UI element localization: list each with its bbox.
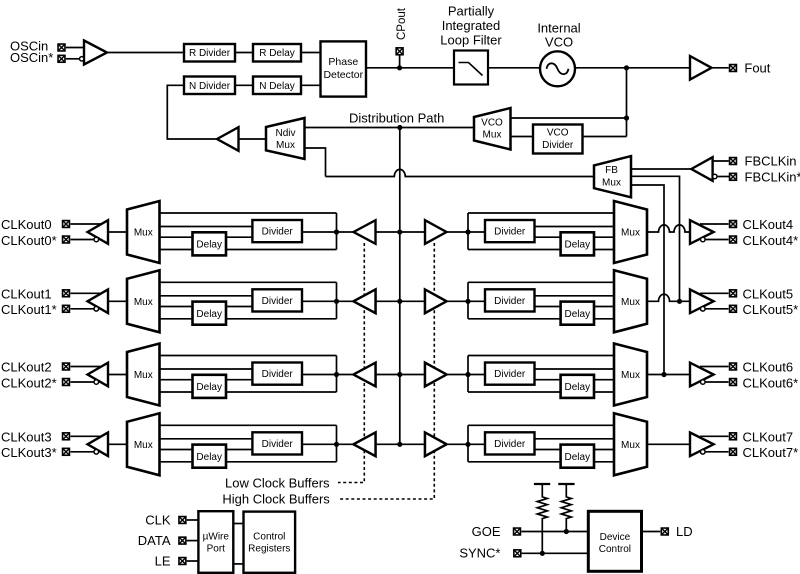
pin CLKout1* xyxy=(63,305,70,312)
svg-text:CLKout5*: CLKout5* xyxy=(743,302,799,317)
wire R Delay to Phase Detector xyxy=(301,52,321,54)
svg-text:N Divider: N Divider xyxy=(189,81,231,92)
block N Divider xyxy=(184,77,235,95)
wire high buffer 7 to CLKout7 channel xyxy=(447,443,486,445)
wire N Divider to N Delay xyxy=(235,84,253,86)
block Phase Detector xyxy=(321,41,367,96)
svg-text:CLKout1*: CLKout1* xyxy=(1,302,57,317)
svg-text:Detector: Detector xyxy=(323,69,363,81)
wire FBCLKin* pin to buffer xyxy=(717,176,730,178)
node CLKout0 label xyxy=(1,217,52,232)
wire OSCin buffer to R Divider xyxy=(107,52,184,54)
op-amp CLKout4 output buffer xyxy=(690,220,714,244)
pin CPout xyxy=(396,48,403,55)
pin CLKout3 xyxy=(63,433,70,440)
pin CLKout0* xyxy=(63,236,70,243)
wire VCO Divider input xyxy=(583,136,627,138)
svg-text:Mux: Mux xyxy=(276,140,295,151)
node CLKout2 label xyxy=(1,360,52,375)
block R Delay xyxy=(253,44,301,62)
op-amp CLKout6 output buffer xyxy=(690,363,714,387)
wire distribution path to high buffer 7 xyxy=(400,443,425,445)
mux CLKout5 Mux xyxy=(614,270,647,332)
wire CLKout1 buffer to pin xyxy=(71,292,105,294)
pin DATA xyxy=(179,537,186,544)
op-amp CLKout1 output buffer xyxy=(88,290,109,314)
power rail pullup 2 xyxy=(558,483,574,485)
junction GOE pullup xyxy=(564,529,569,534)
wire CLKout1* buffer to pin xyxy=(71,308,95,310)
wire CLKout2* buffer to pin xyxy=(71,381,95,383)
svg-text:Divider: Divider xyxy=(262,227,294,238)
block Delay CLKout2 xyxy=(193,375,227,398)
wire CLKout2 buffer to pin xyxy=(71,366,105,368)
op-amp high clock buffer 5 overlay xyxy=(425,290,447,314)
junction VCO output xyxy=(624,65,629,70)
mux Ndiv Mux xyxy=(266,118,305,159)
junction CLKout5 channel node xyxy=(465,299,470,304)
svg-text:Internal: Internal xyxy=(537,21,580,36)
wire dashed callout low clock buffers xyxy=(338,243,364,483)
wire GOE to Device Control xyxy=(521,531,588,533)
op-amp Fout buffer xyxy=(690,56,712,80)
wire CLKout5 channel routing xyxy=(468,282,614,319)
wire N feedback buffer to N Divider xyxy=(167,85,217,139)
wire VCO Mux output to Ndiv Mux xyxy=(305,127,475,129)
wire Ndiv Mux input 2 routing xyxy=(305,148,326,177)
junction CLKout4 channel node xyxy=(465,229,470,234)
junction VCO Mux input xyxy=(624,115,629,120)
wire VCO to Fout buffer xyxy=(575,67,690,69)
node CLKout4* label xyxy=(743,233,799,248)
wire LE pin to uWire Port xyxy=(187,560,199,562)
block Divider CLKout2 xyxy=(252,363,302,385)
block Delay CLKout3 xyxy=(193,445,227,468)
block Delay CLKout0 xyxy=(193,232,227,255)
pin SYNC* xyxy=(514,550,521,557)
node OSCin* label xyxy=(10,50,53,65)
pin LD xyxy=(661,528,668,535)
wire CLKout4 Mux to output buffer xyxy=(647,225,690,232)
op-amp CLKout0 output buffer xyxy=(88,220,109,244)
node High Clock Buffers label xyxy=(222,492,330,507)
mux CLKout4 Mux xyxy=(614,201,647,263)
block Control Registers xyxy=(244,512,296,573)
junction distribution path top xyxy=(397,125,402,130)
svg-text:SYNC*: SYNC* xyxy=(459,545,500,560)
pin CLKout7* xyxy=(730,448,737,455)
pin CLKout4 xyxy=(730,221,737,228)
node FBCLKin label xyxy=(745,154,797,169)
wire CLKout1 channel routing xyxy=(160,282,354,319)
wire SYNC* to Device Control xyxy=(522,552,589,554)
pin CLKout2 xyxy=(63,363,70,370)
node CLKout6* label xyxy=(743,375,799,390)
svg-text:CLKout0: CLKout0 xyxy=(1,217,52,232)
wire CPout stub xyxy=(399,56,401,68)
wire high buffer 6 to CLKout6 channel xyxy=(447,374,486,376)
wire CLKout7* buffer to pin xyxy=(705,451,729,453)
node FBCLKin* label xyxy=(745,169,800,184)
mux CLKout1 Mux xyxy=(127,270,160,332)
svg-text:LE: LE xyxy=(155,554,171,569)
wire CLKout1 Mux to output buffer xyxy=(108,300,127,302)
mux VCO Mux xyxy=(474,108,511,150)
op-amp CLKout2 output buffer xyxy=(88,363,109,387)
wire CLKout7 buffer to pin xyxy=(700,435,729,437)
junction CLKout2 channel node xyxy=(334,372,339,377)
op-amp high clock buffer 7 xyxy=(425,433,447,457)
node CLKout4 label xyxy=(743,217,794,232)
svg-text:VCO: VCO xyxy=(547,128,569,139)
junction distribution row 0 xyxy=(397,229,402,234)
block Delay CLKout1 xyxy=(193,302,227,325)
svg-text:CLKout6*: CLKout6* xyxy=(743,375,799,390)
node CLKout6 label xyxy=(743,360,794,375)
svg-text:Divider: Divider xyxy=(262,296,294,307)
svg-text:Delay: Delay xyxy=(196,309,222,320)
node Distribution Path label xyxy=(349,111,444,126)
block Divider CLKout0 xyxy=(252,220,302,242)
svg-text:Divider: Divider xyxy=(494,227,526,238)
block Delay CLKout7 xyxy=(561,445,594,468)
mux CLKout7 Mux xyxy=(614,413,647,475)
junction SYNC* pullup xyxy=(540,551,545,556)
block Divider CLKout5 xyxy=(485,289,535,311)
wire CLKout3 Mux to output buffer xyxy=(108,443,127,445)
svg-text:CLKout2*: CLKout2* xyxy=(1,375,57,390)
junction distribution row 1 xyxy=(397,299,402,304)
svg-text:CLKout2: CLKout2 xyxy=(1,360,52,375)
block Divider CLKout3 xyxy=(252,432,302,454)
svg-text:Mux: Mux xyxy=(483,130,502,141)
svg-text:DATA: DATA xyxy=(138,533,171,548)
node CLKout7* label xyxy=(743,445,799,460)
junction at CPout xyxy=(397,65,402,70)
svg-text:Delay: Delay xyxy=(565,240,591,251)
wire distribution path to high buffer 5 xyxy=(400,300,425,302)
wire Ndiv Mux output to N feedback buffer xyxy=(239,138,267,140)
op-amp low clock buffer 3 xyxy=(354,433,376,457)
mux CLKout0 Mux xyxy=(127,201,160,263)
wire FBCLKin pin to buffer xyxy=(713,160,729,162)
wire FB Mux output with hop over distribution path xyxy=(326,169,595,176)
wire FB Mux input 2 from CLKout5 xyxy=(631,176,680,301)
wire FB Mux input 3 from CLKout6 xyxy=(631,185,664,375)
block Device Control xyxy=(588,511,641,571)
wire dashed callout high clock buffers xyxy=(338,243,434,499)
block Loop Filter lowpass xyxy=(454,51,488,85)
svg-text:Ndiv: Ndiv xyxy=(275,128,295,139)
junction CLKout1 channel node xyxy=(334,299,339,304)
wire CLKout2 channel routing xyxy=(160,356,354,393)
op-amp high clock buffer 7 overlay xyxy=(425,433,447,457)
mux FB Mux xyxy=(594,156,631,197)
pin OSCin* xyxy=(58,55,65,62)
pin CLK xyxy=(179,517,186,524)
block N Delay xyxy=(253,77,301,95)
node CLKout1* label xyxy=(1,302,57,317)
wire to VCO Mux input 1 xyxy=(511,117,627,119)
wire Phase Detector output to Loop Filter xyxy=(366,67,454,69)
svg-text:CPout: CPout xyxy=(396,7,408,40)
svg-text:Delay: Delay xyxy=(196,382,222,393)
wire DATA pin to uWire Port xyxy=(187,540,199,542)
node CLKout7 label xyxy=(743,429,794,444)
junction CLKout7 channel node xyxy=(465,442,470,447)
wire VCO Divider output to VCO Mux xyxy=(511,136,534,138)
svg-text:Mux: Mux xyxy=(621,228,640,239)
op-amp high clock buffer 5 xyxy=(425,290,447,314)
svg-text:Delay: Delay xyxy=(196,240,222,251)
svg-text:CLKout4: CLKout4 xyxy=(743,217,794,232)
node CLKout0* label xyxy=(1,233,57,248)
svg-text:Control: Control xyxy=(599,544,631,555)
wire CLKout3 buffer to pin xyxy=(71,435,105,437)
block Divider CLKout6 xyxy=(485,363,535,385)
op-amp low clock buffer 1 xyxy=(354,290,376,314)
wire VCO feedback vertical xyxy=(626,68,628,137)
junction CLKout6 channel node xyxy=(465,372,470,377)
wire N Delay to Phase Detector xyxy=(301,84,321,86)
svg-text:CLK: CLK xyxy=(145,513,171,528)
junction distribution row 2 xyxy=(397,372,402,377)
pin CLKout6* xyxy=(730,379,737,386)
pin GOE xyxy=(514,528,521,535)
wire CLKout0 channel routing xyxy=(160,213,354,250)
op-amp FBCLKin input buffer xyxy=(691,157,717,181)
wire CLKout4* buffer to pin xyxy=(705,239,729,241)
op-amp CLKout5 output buffer xyxy=(690,290,714,314)
svg-text:CLKout3*: CLKout3* xyxy=(1,445,57,460)
op-amp low clock buffer 0 xyxy=(354,220,376,244)
node Fout label xyxy=(744,61,770,76)
svg-text:LD: LD xyxy=(676,524,693,539)
pin LE xyxy=(179,558,186,565)
wire CLKout7 channel routing xyxy=(468,425,614,462)
node Internal VCO label xyxy=(537,21,580,50)
op-amp high clock buffer 6 xyxy=(425,363,447,387)
node CPout label xyxy=(396,7,408,40)
wire distribution path to high buffer 6 xyxy=(400,374,425,376)
svg-text:R Divider: R Divider xyxy=(189,48,231,59)
wire low buffer 2 to distribution path xyxy=(376,374,400,376)
junction CLKout3 channel node xyxy=(334,442,339,447)
svg-text:Mux: Mux xyxy=(134,370,153,381)
oscillator Internal VCO xyxy=(540,51,575,86)
wire CLKout5 buffer to pin xyxy=(700,292,729,294)
svg-text:Divider: Divider xyxy=(542,140,574,151)
block uWire Port xyxy=(198,511,233,573)
op-amp CLKout7 output buffer xyxy=(690,433,714,457)
svg-text:Loop Filter: Loop Filter xyxy=(440,33,502,48)
op-amp high clock buffer 4 xyxy=(425,220,447,244)
op-amp CLKout3 output buffer xyxy=(88,433,109,457)
svg-text:Delay: Delay xyxy=(565,382,591,393)
pin CLKout1 xyxy=(63,290,70,297)
op-amp low clock buffer 1 overlay xyxy=(354,290,376,314)
pin FBCLKin* xyxy=(730,173,737,180)
op-amp OSCin input buffer xyxy=(80,41,108,65)
mux CLKout3 Mux xyxy=(127,413,160,475)
op-amp low clock buffer 2 overlay xyxy=(354,363,376,387)
svg-text:Mux: Mux xyxy=(621,297,640,308)
pin FBCLKin xyxy=(730,158,737,165)
block Delay CLKout5 xyxy=(561,302,594,325)
svg-text:CLKout7*: CLKout7* xyxy=(743,445,799,460)
svg-text:Device: Device xyxy=(600,532,631,543)
block Divider CLKout4 xyxy=(485,220,535,242)
wire distribution path to high buffer 4 xyxy=(400,231,425,233)
block Delay CLKout4 xyxy=(561,232,594,255)
svg-text:Mux: Mux xyxy=(134,228,153,239)
node OSCin label xyxy=(10,39,48,54)
wire R Divider to R Delay xyxy=(235,52,253,54)
svg-text:Mux: Mux xyxy=(621,440,640,451)
pin Fout xyxy=(730,65,737,72)
svg-text:FBCLKin*: FBCLKin* xyxy=(745,169,800,184)
junction FB Mux input 3 tap xyxy=(661,372,666,377)
wire CLKout3 channel routing xyxy=(160,425,354,462)
pin CLKout4* xyxy=(730,236,737,243)
node CLK label xyxy=(145,513,171,528)
wire Fout buffer to pin xyxy=(712,67,729,69)
wire OSCin pin to input buffer xyxy=(66,47,84,49)
junction FB Mux input 2 tap xyxy=(677,299,682,304)
wire CLKout6 buffer to pin xyxy=(700,366,729,368)
svg-text:VCO: VCO xyxy=(481,118,503,129)
wire high buffer 4 to CLKout4 channel xyxy=(447,231,486,233)
wire Loop Filter to VCO xyxy=(488,67,540,69)
svg-text:Delay: Delay xyxy=(196,452,222,463)
wire CLKout5* buffer to pin xyxy=(705,308,729,310)
wire low buffer 1 to distribution path xyxy=(376,300,400,302)
svg-text:Mux: Mux xyxy=(134,440,153,451)
wire uWire Port to Control Registers bus xyxy=(233,524,243,564)
pin CLKout5 xyxy=(730,290,737,297)
pin CLKout6 xyxy=(730,363,737,370)
op-amp high clock buffer 6 overlay xyxy=(425,363,447,387)
svg-text:Partially: Partially xyxy=(448,4,495,19)
block VCO Divider xyxy=(533,125,583,154)
svg-text:GOE: GOE xyxy=(472,524,501,539)
svg-text:Divider: Divider xyxy=(494,369,526,380)
wire CLKout3* buffer to pin xyxy=(71,451,95,453)
svg-text:Mux: Mux xyxy=(621,370,640,381)
svg-text:µWire: µWire xyxy=(203,532,230,543)
svg-text:Divider: Divider xyxy=(262,369,294,380)
junction distribution row 3 xyxy=(397,442,402,447)
svg-text:CLKout7: CLKout7 xyxy=(743,429,794,444)
svg-text:Integrated: Integrated xyxy=(442,18,501,33)
pin CLKout0 xyxy=(63,221,70,228)
block Delay CLKout6 xyxy=(561,375,594,398)
svg-text:Delay: Delay xyxy=(565,309,591,320)
wire low buffer 3 to distribution path xyxy=(376,443,400,445)
wire CLKout4 channel routing xyxy=(468,213,614,250)
wire low buffer 0 to distribution path xyxy=(376,231,400,233)
wire CLKout6* buffer to pin xyxy=(705,381,729,383)
svg-text:Divider: Divider xyxy=(262,439,294,450)
wire CLKout2 Mux to output buffer xyxy=(108,374,127,376)
pin CLKout7 xyxy=(730,433,737,440)
node LD label xyxy=(676,524,693,539)
wire CLKout5 Mux to output buffer xyxy=(647,294,690,301)
svg-text:FB: FB xyxy=(605,165,618,176)
block R Divider xyxy=(184,44,235,62)
op-amp N feedback buffer xyxy=(217,127,239,151)
block Divider CLKout1 xyxy=(252,289,302,311)
pin OSCin xyxy=(58,44,65,51)
svg-text:N Delay: N Delay xyxy=(259,81,295,92)
svg-text:VCO: VCO xyxy=(545,35,573,50)
node CLKout2* label xyxy=(1,375,57,390)
wire CLK pin to uWire Port xyxy=(187,519,199,521)
wire CLKout6 channel routing xyxy=(468,356,614,393)
svg-text:R Delay: R Delay xyxy=(259,48,295,59)
wire CLKout6 Mux to output buffer xyxy=(647,374,690,376)
svg-text:Divider: Divider xyxy=(494,296,526,307)
wire high buffer 5 to CLKout5 channel xyxy=(447,300,486,302)
svg-text:Control: Control xyxy=(253,532,285,543)
node CLKout5 label xyxy=(743,286,794,301)
svg-text:Distribution Path: Distribution Path xyxy=(349,111,444,126)
mux CLKout6 Mux xyxy=(614,344,647,406)
wire central distribution path vertical xyxy=(399,128,401,445)
op-amp low clock buffer 2 xyxy=(354,363,376,387)
svg-text:Divider: Divider xyxy=(494,439,526,450)
pin CLKout3* xyxy=(63,448,70,455)
node LE label xyxy=(155,554,171,569)
node CLKout3 label xyxy=(1,429,52,444)
wire CLKout0* buffer to pin xyxy=(71,239,95,241)
svg-text:CLKout5: CLKout5 xyxy=(743,286,794,301)
svg-text:Delay: Delay xyxy=(565,452,591,463)
svg-text:Low Clock Buffers: Low Clock Buffers xyxy=(225,475,330,490)
svg-text:Port: Port xyxy=(207,544,226,555)
svg-text:Mux: Mux xyxy=(134,297,153,308)
node CLKout1 label xyxy=(1,286,52,301)
svg-text:CLKout1: CLKout1 xyxy=(1,286,52,301)
node DATA label xyxy=(138,533,171,548)
block Divider CLKout7 xyxy=(485,432,535,454)
svg-text:FBCLKin: FBCLKin xyxy=(745,154,797,169)
svg-text:Mux: Mux xyxy=(602,178,621,189)
power rail pullup 1 xyxy=(534,483,550,485)
svg-text:CLKout3: CLKout3 xyxy=(1,429,52,444)
mux CLKout2 Mux xyxy=(127,344,160,406)
pin CLKout5* xyxy=(730,305,737,312)
wire CLKout4 buffer to pin xyxy=(700,223,729,225)
wire Device Control to LD pin xyxy=(642,531,661,533)
pin CLKout2* xyxy=(63,379,70,386)
svg-text:CLKout4*: CLKout4* xyxy=(743,233,799,248)
wire FBCLKin buffer to FB Mux input 1 xyxy=(631,168,692,170)
node Low Clock Buffers label xyxy=(225,475,330,490)
junction CLKout0 channel node xyxy=(334,229,339,234)
svg-text:Fout: Fout xyxy=(744,61,770,76)
wire CLKout7 Mux to output buffer xyxy=(647,443,690,445)
svg-text:CLKout0*: CLKout0* xyxy=(1,233,57,248)
svg-text:Phase: Phase xyxy=(328,56,358,68)
node SYNC* label xyxy=(459,545,500,560)
wire CLKout0 buffer to pin xyxy=(71,223,105,225)
wire OSCin* pin to input buffer xyxy=(66,58,80,60)
svg-text:Registers: Registers xyxy=(248,544,290,555)
node CLKout3* label xyxy=(1,445,57,460)
wire CLKout0 Mux to output buffer xyxy=(108,231,127,233)
op-amp low clock buffer 3 overlay xyxy=(354,433,376,457)
